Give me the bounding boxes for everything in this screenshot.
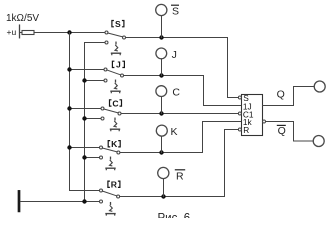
switch SA [K] [100,146,120,159]
terminal C label [172,86,180,98]
ground symbol under switch [S] [112,42,121,54]
switch SA [C] [101,107,121,120]
node bus2/C junction [82,116,86,120]
ground terminal bar (0V) [18,191,21,211]
svg-text:J: J [172,49,177,61]
svg-text:K: K [111,139,118,149]
svg-text:C: C [112,98,118,108]
wire switch K row to flip-flop 1K input [120,122,241,153]
switch SA [C] label [110,98,122,108]
node bus1/C junction [67,106,71,110]
svg-text:C: C [172,86,180,98]
node bus2/J junction [82,78,86,82]
pin label R [243,125,249,135]
wire stub node R to terminal R [163,179,165,197]
svg-text:Q: Q [277,89,285,101]
svg-text:Q: Q [278,125,286,137]
svg-text:J: J [116,60,121,70]
wire ground bar to switch R lower contact [20,201,99,203]
wire bus2 to S lower contact [85,42,106,44]
value label 1kOhm/5V [6,13,39,24]
terminal R label [176,170,184,182]
wire stub node J to terminal J [161,59,163,76]
svg-text:S: S [172,6,179,18]
svg-text:1kΩ/5V: 1kΩ/5V [6,13,39,24]
node R junction [161,194,165,198]
terminal C (test point) [156,86,167,97]
wire bus2 to K lower contact [85,157,100,159]
switch SA [K] label [108,139,120,149]
terminal S (test point) [156,4,167,15]
pin C1 inversion bubble [238,112,241,115]
node bus2/K junction [82,155,86,159]
wire switch R row to flip-flop R input [120,130,238,197]
node bus1/K junction [67,145,71,149]
+u terminal bar [19,25,21,38]
wire bus1 vertical (+u rail) down to switch R upper contact [70,33,100,191]
node C junction [159,111,163,115]
wire bus2 to J lower contact [85,80,105,82]
+u supply terminal [7,27,17,37]
output Q label [277,89,285,101]
wire bus1 to K upper contact [70,147,100,149]
wire bus1 to J upper contact [70,69,105,71]
switch SA [R] [100,189,120,203]
wire stub node C to terminal C [161,97,163,114]
svg-text:+u: +u [7,27,17,37]
svg-text:S: S [115,19,121,29]
switch SA [J] label [112,60,124,70]
flip-flop U1 (JK trigger) body [242,95,263,136]
wire switch S row to flip-flop S input [126,38,238,98]
wire +u rail to switch S upper contact [34,32,105,34]
wire flip-flop Q-bar output to terminal Q-bar [266,122,314,142]
svg-text:K: K [171,126,178,138]
node bus2/ground junction [82,199,86,203]
wire bus1 to C upper contact [70,108,102,110]
wire flip-flop Q output to terminal Q [263,87,315,106]
pin S inversion bubble [238,96,241,99]
ground symbol under switch [J] [111,80,120,92]
terminal K (test point) [156,125,167,136]
resistor R1 1kOhm [20,31,35,35]
pin label C1 [243,109,254,119]
wire bus2 to C lower contact [85,118,102,120]
ground symbol under switch [C] [111,118,120,130]
switch SA [J] [104,68,124,82]
switch SA [S] [105,31,126,44]
node J junction [159,73,163,77]
wire stub node S to terminal S [161,16,163,38]
pin label S [243,93,249,103]
pin label 1k [243,117,253,127]
pin label 1J [243,101,252,111]
node bus1/J junction [67,67,71,71]
wire switch C row to flip-flop C1 input [121,113,238,115]
svg-text:R: R [176,170,184,182]
terminal R (test point) [158,167,169,178]
output Q-bar inversion bubble [263,120,266,123]
caption Ris. 6 [158,212,191,224]
terminal Q [314,81,325,92]
terminal K label [171,126,178,138]
ground symbol under switch [K] [106,157,115,169]
terminal J label [172,49,177,61]
switch SA [S] label [112,19,124,29]
node S junction [159,35,163,39]
output Q-bar label (Q with overline) [278,125,286,137]
terminal J (test point) [156,48,167,59]
node K junction [159,150,163,154]
switch SA [R] label [108,180,120,190]
ground symbol under switch [R] [106,203,115,215]
svg-text:R: R [243,125,249,135]
svg-text:Рис. 6: Рис. 6 [158,212,191,218]
pin R inversion bubble [238,128,241,131]
wire switch J row to flip-flop 1J input [124,76,242,106]
wire bus2 vertical (ground rail) [84,43,86,202]
node bus1 top junction [67,30,71,34]
terminal S label [172,6,179,18]
wire stub node K to terminal K [161,136,163,152]
terminal Q-bar [313,136,324,147]
svg-text:R: R [111,180,118,190]
